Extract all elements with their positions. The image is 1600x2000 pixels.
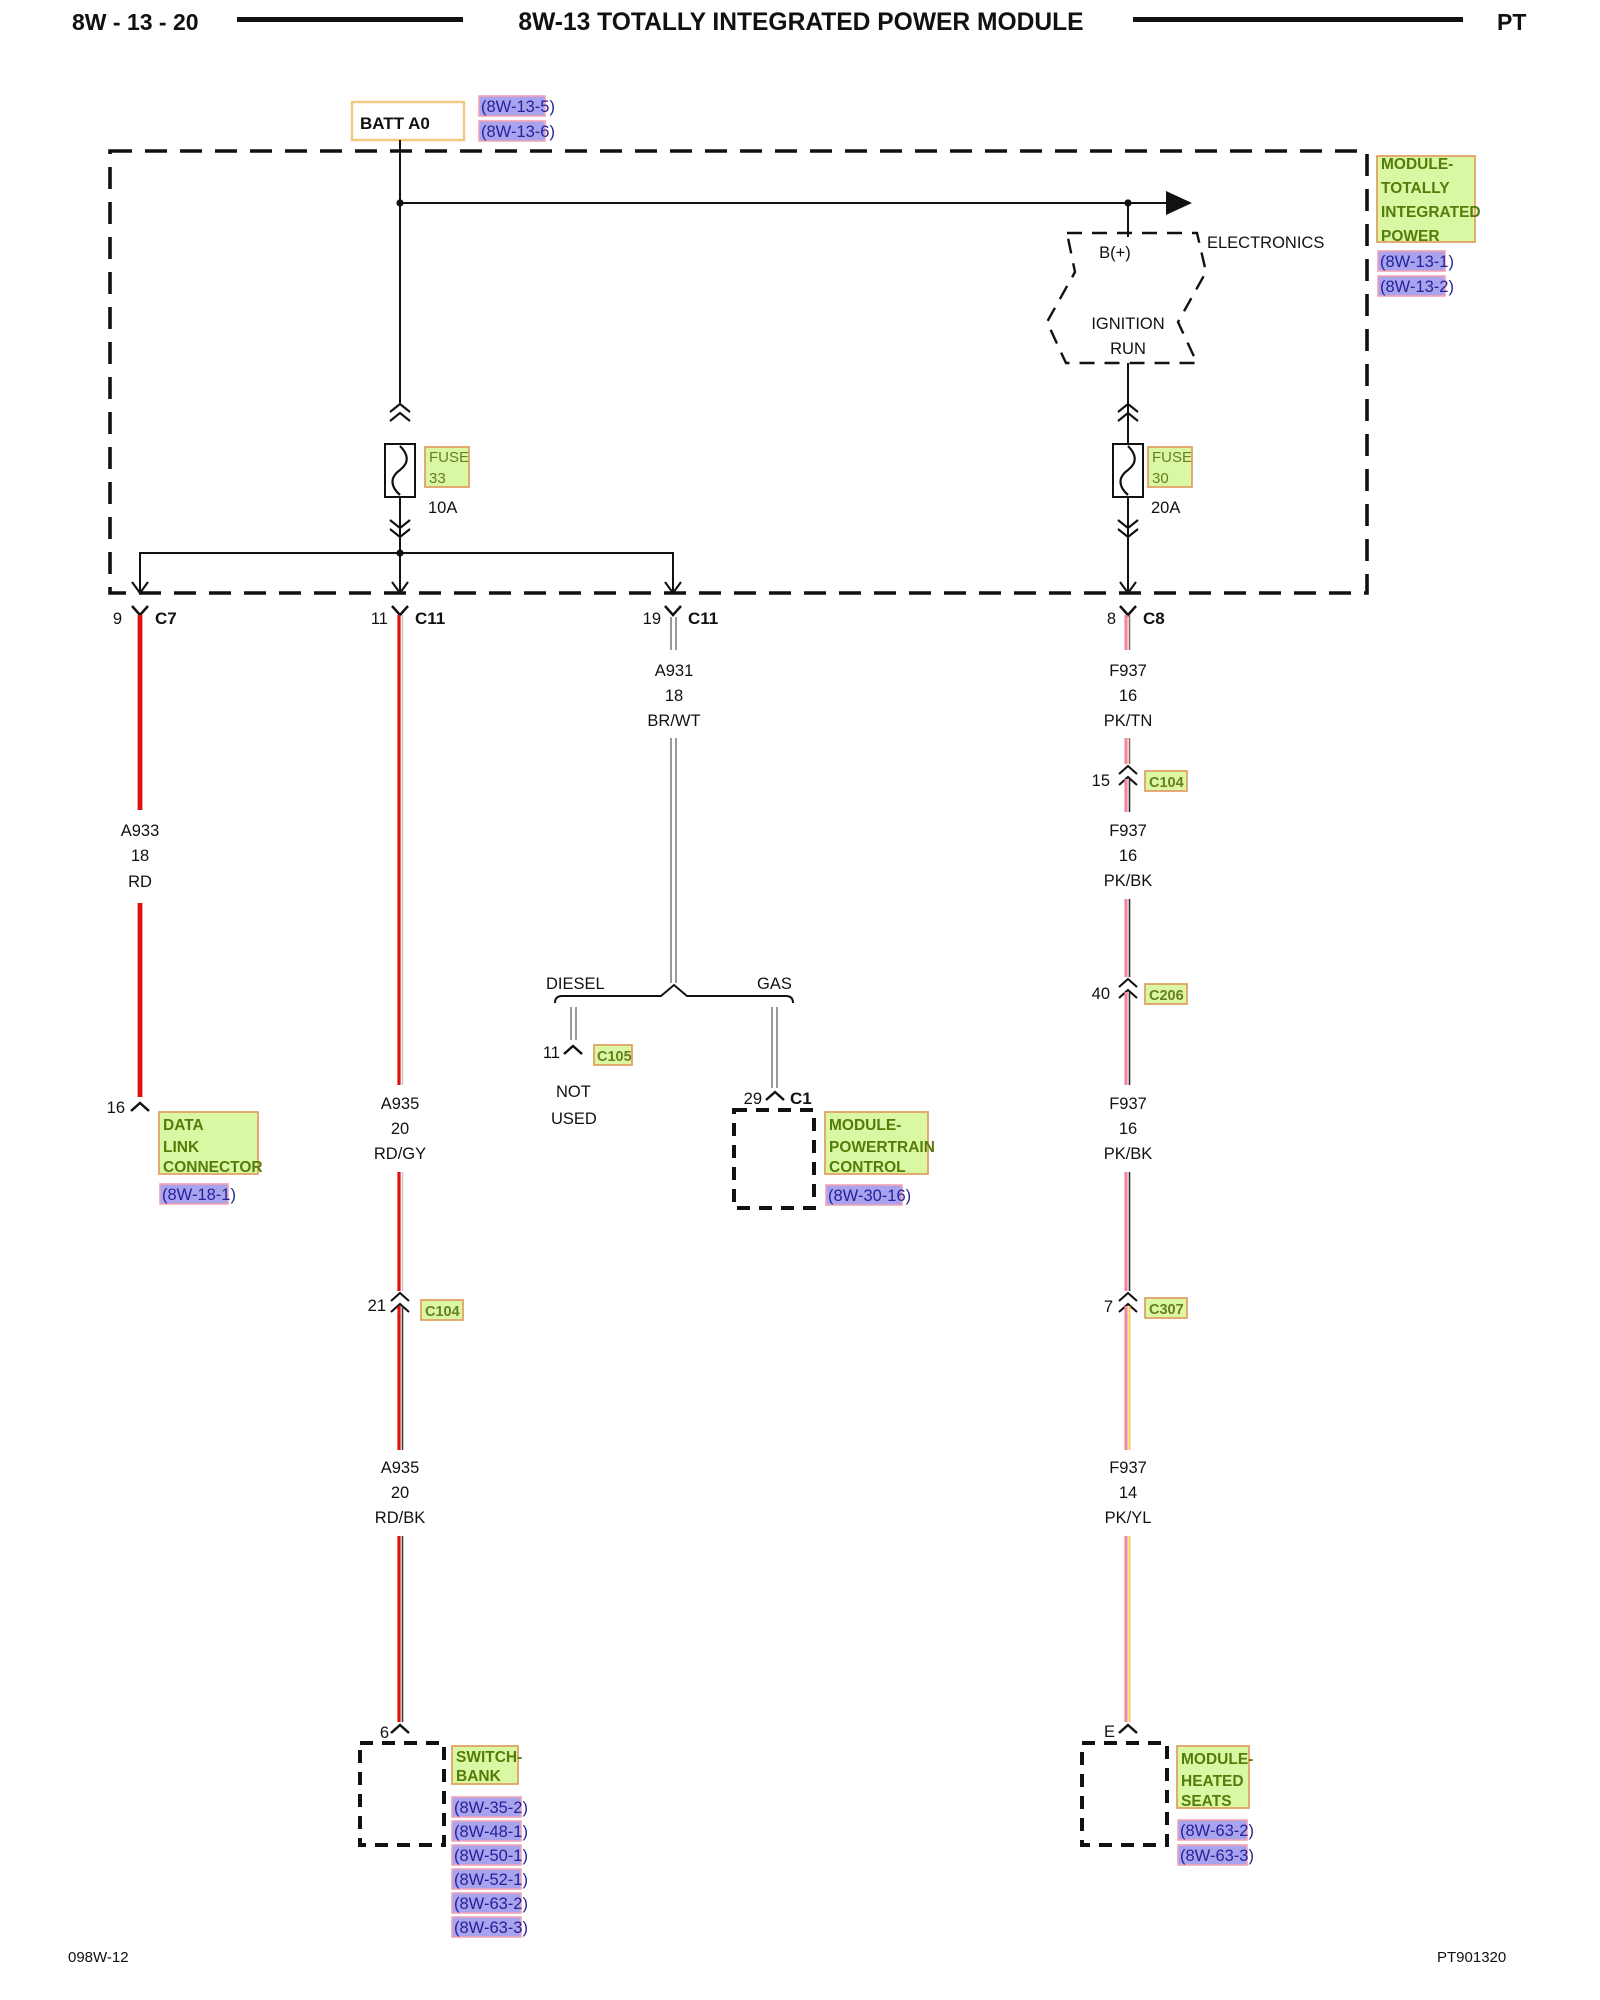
svg-text:16: 16: [1119, 847, 1137, 865]
link (8W-48-1): [452, 1821, 521, 1841]
connector chevrons above fuse 33: [390, 404, 410, 412]
connector C8 pin 8: [1120, 606, 1136, 615]
svg-text:C11: C11: [415, 609, 445, 628]
svg-text:SWITCH-: SWITCH-: [456, 1749, 522, 1766]
svg-text:C206: C206: [1149, 988, 1184, 1004]
wire F937 16 PK/TN upper: [1126, 615, 1130, 650]
link (8W-52-1): [452, 1869, 521, 1889]
svg-text:(8W-52-1): (8W-52-1): [454, 1871, 528, 1889]
link (8W-13-1): [1378, 251, 1445, 271]
svg-text:POWER: POWER: [1381, 228, 1440, 245]
wire bus horizontal to electronics: [400, 202, 1166, 204]
svg-text:C104: C104: [1149, 775, 1184, 791]
svg-text:A931: A931: [655, 662, 694, 680]
svg-text:(8W-50-1): (8W-50-1): [454, 1847, 528, 1865]
link (8W-35-2): [452, 1797, 521, 1817]
wire A931 18 BR/WT upper: [671, 617, 676, 650]
link (8W-13-6): [479, 121, 545, 141]
svg-text:16: 16: [1119, 1120, 1137, 1138]
connector switch bank pin 6: [391, 1725, 409, 1733]
arrow into C11 pin 11: [392, 582, 408, 593]
heated seats module dashed box: [1082, 1743, 1167, 1845]
arrow feed continuing right: [1166, 191, 1192, 215]
wire A935 20 RD/GY upper: [399, 615, 403, 1085]
svg-text:18: 18: [665, 687, 683, 705]
svg-text:E: E: [1104, 1723, 1115, 1741]
wire ignition run down to fuse 30: [1127, 363, 1129, 444]
svg-text:(8W-63-3): (8W-63-3): [1180, 1847, 1254, 1865]
svg-text:PT901320: PT901320: [1437, 1949, 1506, 1966]
svg-text:C105: C105: [597, 1049, 632, 1065]
label MODULE-POWERTRAIN CONTROL: [825, 1112, 928, 1174]
inline connector C104 pin 21: [391, 1293, 409, 1301]
svg-text:C307: C307: [1149, 1302, 1184, 1318]
connector C7 pin 9: [132, 606, 148, 615]
svg-text:LINK: LINK: [163, 1139, 200, 1156]
wire drop to B+: [1127, 203, 1129, 237]
wire F937 14 PK/YL upper: [1126, 1306, 1130, 1450]
svg-text:C11: C11: [688, 609, 718, 628]
connector C105 pin 11: [564, 1046, 582, 1054]
wire A933 18 RD lower: [138, 903, 143, 1097]
wire F937 16 PK/BK second upper: [1126, 992, 1130, 1085]
link (8W-50-1): [452, 1845, 521, 1865]
link (8W-18-1): [160, 1184, 228, 1204]
svg-text:BANK: BANK: [456, 1768, 502, 1785]
link (8W-13-2): [1378, 276, 1445, 296]
wire diesel branch: [571, 1007, 576, 1040]
svg-text:7: 7: [1104, 1298, 1113, 1316]
svg-text:C7: C7: [155, 609, 177, 628]
connector heated seats pin E: [1119, 1725, 1137, 1733]
wire distribution bus: [140, 553, 673, 591]
svg-text:19: 19: [643, 610, 661, 628]
svg-text:MODULE-: MODULE-: [829, 1117, 901, 1134]
svg-text:FUSE: FUSE: [1152, 449, 1192, 466]
svg-text:A935: A935: [381, 1459, 420, 1477]
svg-text:11: 11: [543, 1044, 560, 1062]
svg-text:30: 30: [1152, 470, 1169, 487]
inline connector C206 pin 40: [1119, 979, 1137, 987]
link (8W-63-3) seats: [1178, 1845, 1247, 1865]
svg-text:C104: C104: [425, 1304, 460, 1320]
node junction at C11 drop: [396, 549, 403, 556]
svg-text:33: 33: [429, 470, 446, 487]
svg-text:098W-12: 098W-12: [68, 1949, 129, 1966]
link (8W-63-2) seats: [1178, 1820, 1247, 1840]
svg-text:PK/BK: PK/BK: [1104, 872, 1153, 890]
svg-text:BR/WT: BR/WT: [647, 712, 700, 730]
wire A931 18 BR/WT lower: [671, 738, 676, 983]
inline connector C307 pin 7: [1119, 1293, 1137, 1301]
svg-text:10A: 10A: [428, 499, 457, 517]
svg-text:20: 20: [391, 1120, 409, 1138]
svg-text:C1: C1: [790, 1089, 812, 1108]
node junction at bus top: [396, 199, 403, 206]
svg-text:6: 6: [380, 1724, 389, 1742]
svg-text:POWERTRAIN: POWERTRAIN: [829, 1139, 935, 1156]
svg-text:21: 21: [368, 1297, 386, 1315]
svg-text:20: 20: [391, 1484, 409, 1502]
link (8W-30-16): [826, 1185, 902, 1205]
svg-text:(8W-35-2): (8W-35-2): [454, 1799, 528, 1817]
svg-text:SEATS: SEATS: [1181, 1793, 1232, 1810]
svg-text:ELECTRONICS: ELECTRONICS: [1207, 234, 1324, 252]
connector C1 pin 29: [766, 1092, 784, 1100]
svg-text:MODULE-: MODULE-: [1181, 1751, 1253, 1768]
arrow into C7: [132, 582, 148, 593]
svg-text:(8W-63-2): (8W-63-2): [454, 1895, 528, 1913]
wire fuse 30 down to C8: [1127, 497, 1129, 591]
svg-text:HEATED: HEATED: [1181, 1773, 1244, 1790]
svg-text:(8W-48-1): (8W-48-1): [454, 1823, 528, 1841]
svg-text:INTEGRATED: INTEGRATED: [1381, 204, 1481, 221]
svg-text:18: 18: [131, 847, 149, 865]
svg-text:F937: F937: [1109, 1095, 1147, 1113]
svg-text:PT: PT: [1497, 9, 1526, 35]
svg-text:(8W-13-5): (8W-13-5): [481, 98, 555, 116]
svg-text:CONNECTOR: CONNECTOR: [163, 1159, 263, 1176]
arrow into C11 pin 19: [665, 582, 681, 593]
svg-text:RUN: RUN: [1110, 340, 1146, 358]
connector C11 pin 11: [392, 606, 408, 615]
svg-text:14: 14: [1119, 1484, 1137, 1502]
svg-text:C8: C8: [1143, 609, 1165, 628]
label MODULE-HEATED SEATS: [1177, 1746, 1249, 1808]
svg-text:NOT: NOT: [556, 1083, 591, 1101]
wire A933 18 RD upper: [138, 615, 143, 810]
electronics internal block (dashed jagged outline): [1047, 233, 1206, 363]
label SWITCH-BANK: [452, 1746, 518, 1784]
wire F937 16 PK/BK second lower: [1126, 1172, 1130, 1291]
powertrain control module dashed box: [734, 1110, 814, 1208]
svg-text:PK/TN: PK/TN: [1104, 712, 1153, 730]
svg-text:8: 8: [1107, 610, 1116, 628]
svg-text:(8W-30-16): (8W-30-16): [828, 1187, 911, 1205]
connector C11 pin 19: [665, 606, 681, 615]
svg-text:PK/BK: PK/BK: [1104, 1145, 1153, 1163]
svg-text:(8W-63-2): (8W-63-2): [1180, 1822, 1254, 1840]
svg-text:8W-13 TOTALLY INTEGRATED POWER: 8W-13 TOTALLY INTEGRATED POWER MODULE: [518, 9, 1083, 36]
svg-text:RD/GY: RD/GY: [374, 1145, 426, 1163]
svg-text:40: 40: [1092, 985, 1110, 1003]
svg-text:CONTROL: CONTROL: [829, 1159, 906, 1176]
svg-text:(8W-13-2): (8W-13-2): [1380, 278, 1454, 296]
svg-text:A935: A935: [381, 1095, 420, 1113]
module TIPM dashed boundary box: [110, 151, 1367, 593]
node junction at B+ drop: [1124, 199, 1131, 206]
switch bank dashed box: [360, 1743, 444, 1845]
battery feed box BATT A0: [352, 102, 464, 140]
svg-text:IGNITION: IGNITION: [1091, 315, 1164, 333]
svg-text:(8W-13-1): (8W-13-1): [1380, 253, 1454, 271]
header rule right: [1133, 17, 1463, 22]
label FUSE 33: [425, 447, 469, 487]
svg-text:RD: RD: [128, 873, 152, 891]
arrow into C8: [1120, 582, 1136, 593]
svg-text:RD/BK: RD/BK: [375, 1509, 425, 1527]
svg-text:(8W-63-3): (8W-63-3): [454, 1919, 528, 1937]
header rule left: [237, 17, 463, 22]
wire BATT A0 down to junction: [399, 140, 401, 403]
svg-text:B(+): B(+): [1099, 244, 1131, 262]
svg-text:PK/YL: PK/YL: [1105, 1509, 1152, 1527]
wire A935 20 RD/BK upper: [399, 1306, 403, 1450]
wire F937 14 PK/YL lower: [1126, 1536, 1130, 1722]
svg-text:DIESEL: DIESEL: [546, 975, 605, 993]
wire F937 16 PK/BK lower: [1126, 899, 1130, 977]
label DATA LINK CONNECTOR: [159, 1112, 258, 1174]
fuse F33: [385, 444, 415, 497]
label MODULE-TOTALLY INTEGRATED POWER: [1377, 156, 1475, 242]
connector chevrons above fuse 30: [1118, 404, 1138, 412]
svg-text:15: 15: [1092, 772, 1110, 790]
splice split DIESEL / GAS: [555, 985, 793, 1003]
svg-text:F937: F937: [1109, 1459, 1147, 1477]
svg-text:DATA: DATA: [163, 1117, 204, 1134]
label FUSE 30: [1148, 447, 1192, 487]
svg-text:20A: 20A: [1151, 499, 1180, 517]
svg-text:FUSE: FUSE: [429, 449, 469, 466]
fuse F30: [1113, 444, 1143, 497]
svg-text:16: 16: [1119, 687, 1137, 705]
svg-text:F937: F937: [1109, 822, 1147, 840]
wire F937 16 PK/TN lower: [1126, 738, 1130, 764]
inline connector C104 pin 15: [1119, 766, 1137, 774]
svg-text:USED: USED: [551, 1110, 597, 1128]
svg-text:(8W-18-1): (8W-18-1): [162, 1186, 236, 1204]
connector chevrons below fuse 33: [390, 520, 410, 528]
svg-text:MODULE-: MODULE-: [1381, 156, 1453, 173]
wire gas branch: [772, 1007, 777, 1088]
svg-text:11: 11: [371, 610, 388, 628]
connector chevrons below fuse 30: [1118, 520, 1138, 528]
wire F937 16 PK/BK upper: [1126, 779, 1130, 812]
svg-text:(8W-13-6): (8W-13-6): [481, 123, 555, 141]
connector DLC pin 16: [131, 1103, 149, 1111]
link (8W-13-5): [479, 96, 545, 116]
wire A935 20 RD/GY lower: [399, 1172, 403, 1291]
wire fuse 33 down to bus: [399, 497, 401, 591]
svg-text:8W - 13 - 20: 8W - 13 - 20: [72, 9, 199, 35]
svg-text:GAS: GAS: [757, 975, 792, 993]
link (8W-63-3): [452, 1917, 521, 1937]
wire A935 20 RD/BK lower: [399, 1536, 403, 1722]
svg-text:9: 9: [113, 610, 122, 628]
svg-text:TOTALLY: TOTALLY: [1381, 180, 1450, 197]
svg-text:A933: A933: [121, 822, 160, 840]
svg-text:F937: F937: [1109, 662, 1147, 680]
svg-text:29: 29: [744, 1090, 762, 1108]
link (8W-63-2): [452, 1893, 521, 1913]
svg-text:16: 16: [107, 1099, 125, 1117]
svg-text:BATT A0: BATT A0: [360, 114, 430, 133]
